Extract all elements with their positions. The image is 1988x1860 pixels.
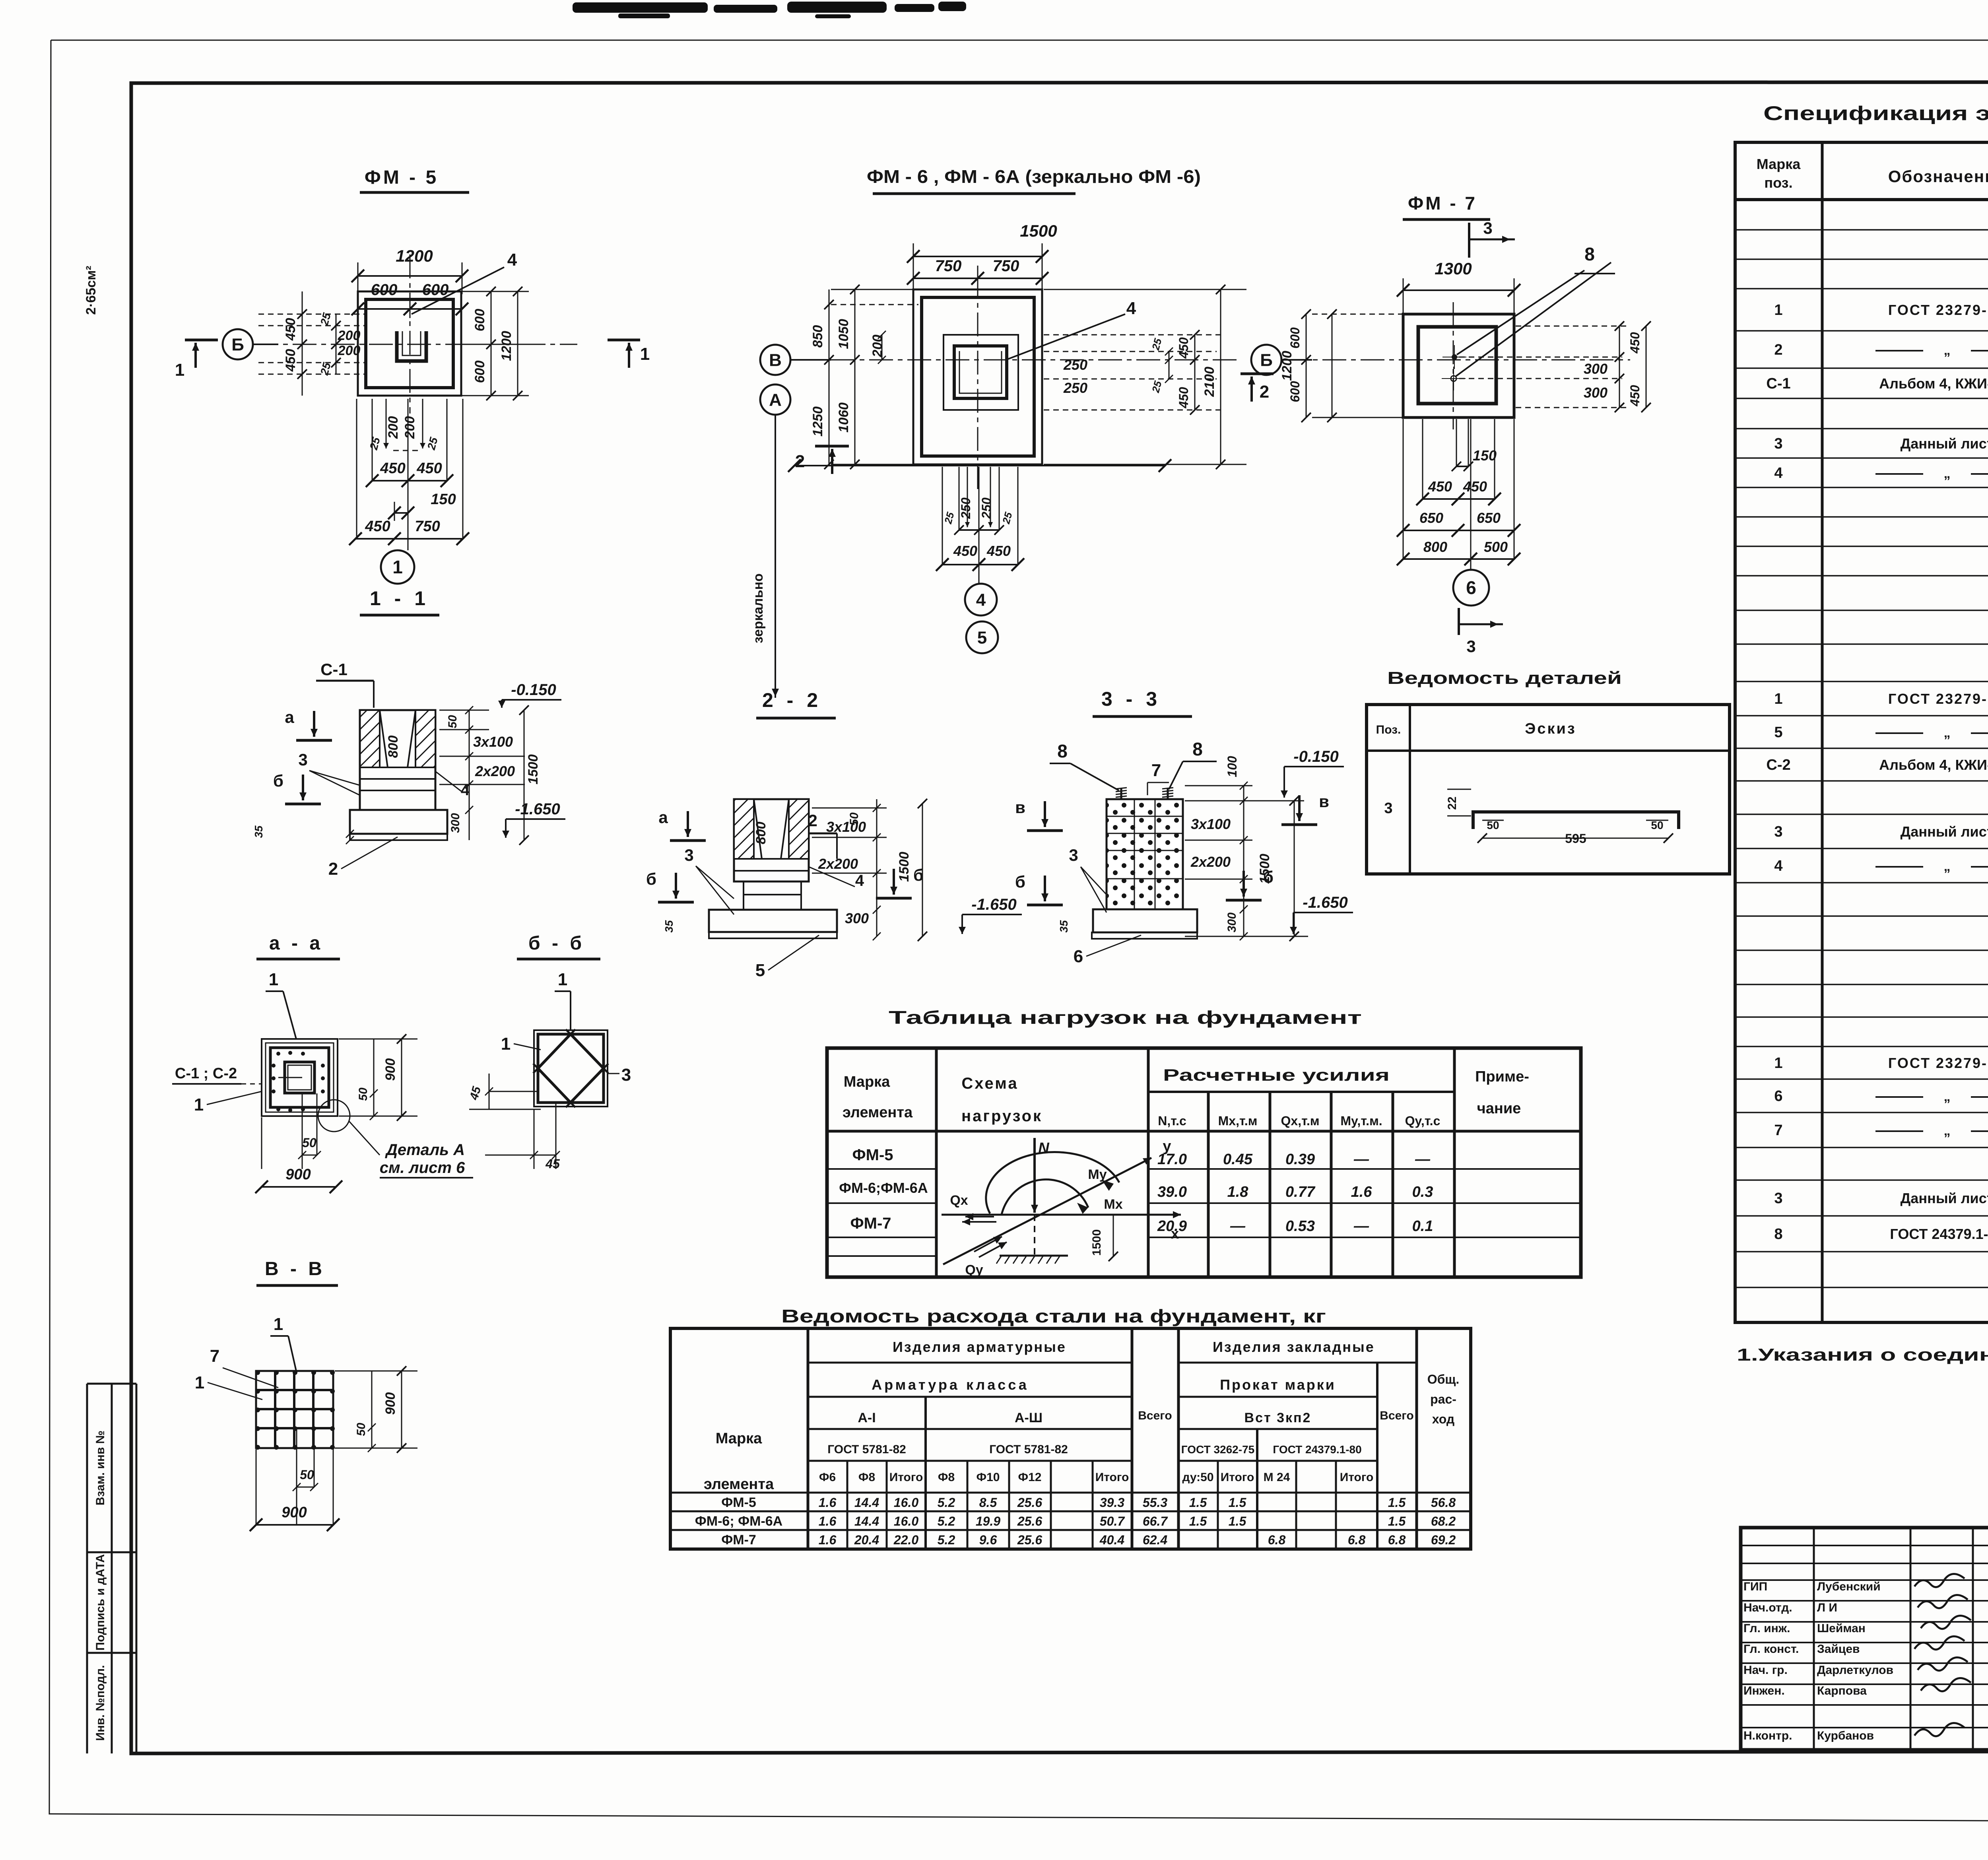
svg-text:Альбом 4, КЖИ-С-2: Альбом 4, КЖИ-С-2 (1879, 757, 1988, 773)
svg-text:14.4: 14.4 (854, 1495, 879, 1510)
svg-text:А: А (769, 390, 782, 410)
svg-text:600: 600 (472, 309, 487, 332)
svg-text:450: 450 (283, 318, 298, 341)
svg-text:50: 50 (357, 1087, 370, 1101)
svg-text:6.8: 6.8 (1348, 1533, 1366, 1547)
svg-text:Альбом 4, КЖИ-С-1: Альбом 4, КЖИ-С-1 (1879, 375, 1988, 392)
svg-text:2х200: 2х200 (818, 856, 858, 872)
svg-text:1.6: 1.6 (1351, 1184, 1373, 1200)
svg-text:3: 3 (1774, 1190, 1782, 1207)
svg-text:5: 5 (1774, 724, 1782, 741)
svg-text:800: 800 (386, 736, 401, 758)
svg-text:5.2: 5.2 (938, 1514, 955, 1528)
svg-text:ГОСТ 5781-82: ГОСТ 5781-82 (989, 1443, 1068, 1456)
svg-text:450: 450 (953, 543, 977, 559)
svg-text:в: в (1319, 792, 1329, 811)
svg-text:ГОСТ 23279-85: ГОСТ 23279-85 (1888, 691, 1988, 707)
svg-text:450: 450 (1176, 387, 1191, 409)
svg-text:22.0: 22.0 (893, 1533, 918, 1547)
svg-text:50: 50 (1651, 819, 1663, 831)
svg-text:1.6: 1.6 (819, 1514, 837, 1528)
svg-text:ГОСТ 5781-82: ГОСТ 5781-82 (827, 1443, 906, 1456)
svg-text:нагрузок: нагрузок (961, 1107, 1043, 1125)
svg-text:50: 50 (300, 1468, 314, 1482)
svg-text:250: 250 (1063, 380, 1087, 396)
svg-text:900: 900 (383, 1058, 398, 1081)
svg-text:Курбанов: Курбанов (1817, 1729, 1874, 1742)
svg-text:„: „ (1944, 343, 1951, 358)
svg-text:17.0: 17.0 (1157, 1151, 1187, 1168)
svg-text:100: 100 (1225, 756, 1239, 777)
svg-text:450: 450 (365, 518, 390, 535)
svg-text:750: 750 (993, 257, 1019, 275)
svg-text:Му: Му (1088, 1167, 1107, 1182)
svg-text:450: 450 (1463, 478, 1487, 495)
svg-text:3х100: 3х100 (1191, 816, 1231, 832)
svg-text:1.5: 1.5 (1229, 1495, 1247, 1510)
svg-text:8: 8 (1057, 741, 1068, 761)
svg-text:Итого: Итого (1095, 1471, 1129, 1484)
svg-text:Деталь А: Деталь А (385, 1141, 465, 1159)
svg-text:Всего: Всего (1138, 1409, 1172, 1422)
svg-text:ФМ - 7: ФМ - 7 (1408, 193, 1477, 214)
svg-text:ГОСТ 24379.1-80: ГОСТ 24379.1-80 (1273, 1443, 1361, 1456)
svg-text:39.0: 39.0 (1157, 1184, 1187, 1200)
svg-text:1050: 1050 (836, 319, 851, 349)
svg-text:—: — (1353, 1218, 1369, 1235)
svg-text:35: 35 (1058, 920, 1070, 933)
svg-text:ФМ-5: ФМ-5 (852, 1146, 893, 1164)
svg-text:8: 8 (1192, 739, 1203, 759)
svg-text:Дарлеткулов: Дарлеткулов (1817, 1664, 1893, 1677)
svg-text:Арматура класса: Арматура класса (872, 1377, 1029, 1393)
svg-text:50: 50 (848, 812, 861, 826)
svg-text:Схема: Схема (961, 1075, 1018, 1092)
svg-text:чание: чание (1477, 1100, 1521, 1117)
svg-text:А-I: А-I (858, 1410, 876, 1425)
svg-text:элемента: элемента (843, 1104, 913, 1121)
svg-text:Н.контр.: Н.контр. (1743, 1729, 1792, 1742)
svg-text:16.0: 16.0 (894, 1514, 918, 1528)
svg-text:2 - 2: 2 - 2 (762, 689, 822, 711)
svg-text:1: 1 (194, 1095, 204, 1114)
svg-text:55.3: 55.3 (1143, 1495, 1167, 1510)
svg-text:Обозначение: Обозначение (1888, 167, 1988, 186)
svg-text:1: 1 (195, 1373, 204, 1392)
svg-text:В: В (769, 350, 782, 370)
svg-text:300: 300 (1225, 913, 1239, 932)
svg-text:Итого: Итого (889, 1471, 923, 1484)
svg-text:450: 450 (380, 460, 405, 477)
svg-text:3: 3 (1466, 637, 1475, 656)
svg-text:40.4: 40.4 (1099, 1533, 1124, 1547)
svg-text:ГОСТ 23279-85: ГОСТ 23279-85 (1888, 1055, 1988, 1071)
svg-text:Гл. конст.: Гл. конст. (1743, 1643, 1799, 1656)
svg-text:-1.650: -1.650 (971, 896, 1016, 913)
svg-text:200: 200 (338, 328, 361, 343)
svg-text:Б: Б (1260, 350, 1273, 370)
svg-text:в: в (1015, 798, 1025, 817)
svg-text:а: а (658, 808, 668, 827)
svg-text:4: 4 (1126, 299, 1136, 318)
svg-text:Нач. гр.: Нач. гр. (1743, 1664, 1788, 1677)
svg-text:Поз.: Поз. (1376, 723, 1401, 736)
svg-text:Мх,т.м: Мх,т.м (1218, 1114, 1258, 1128)
svg-text:ФМ - 5: ФМ - 5 (365, 167, 439, 188)
svg-text:7: 7 (1774, 1122, 1782, 1139)
svg-text:Вст 3кп2: Вст 3кп2 (1244, 1410, 1312, 1425)
svg-text:650: 650 (1419, 510, 1443, 526)
svg-text:1: 1 (1774, 1055, 1782, 1072)
svg-text:14.4: 14.4 (854, 1514, 879, 1528)
svg-text:6: 6 (1466, 577, 1476, 598)
svg-text:1300: 1300 (1435, 259, 1472, 278)
svg-text:9.6: 9.6 (979, 1533, 997, 1547)
svg-text:1.5: 1.5 (1388, 1495, 1406, 1510)
svg-text:250: 250 (979, 497, 994, 519)
svg-text:1.8: 1.8 (1227, 1184, 1249, 1200)
svg-text:200: 200 (402, 416, 417, 439)
svg-text:450: 450 (1428, 478, 1452, 495)
svg-text:62.4: 62.4 (1143, 1533, 1167, 1547)
svg-text:Л И: Л И (1817, 1601, 1837, 1614)
title block (1741, 1528, 1988, 1750)
svg-text:Расчетные усилия: Расчетные усилия (1163, 1066, 1390, 1084)
section 3-3 (1120, 788, 1122, 802)
svg-text:Qу: Qу (965, 1262, 983, 1278)
svg-text:у: у (1163, 1138, 1171, 1155)
svg-text:50: 50 (355, 1423, 368, 1436)
svg-text:450: 450 (1628, 332, 1642, 354)
svg-text:1.Указания о соединении армату: 1.Указания о соединении арматурных издел… (1737, 1345, 1988, 1365)
svg-text:Таблица нагрузок на фундамент: Таблица нагрузок на фундамент (889, 1007, 1362, 1028)
svg-text:19.9: 19.9 (976, 1514, 1000, 1528)
svg-text:600: 600 (1288, 327, 1302, 349)
svg-text:7: 7 (210, 1346, 219, 1366)
svg-text:6.8: 6.8 (1388, 1533, 1406, 1547)
svg-text:Ф10: Ф10 (977, 1471, 1000, 1484)
svg-text:Итого: Итого (1221, 1471, 1254, 1484)
svg-text:3: 3 (1774, 823, 1782, 840)
svg-text:600: 600 (472, 361, 487, 383)
svg-text:450: 450 (986, 543, 1011, 559)
svg-text:2·65см²: 2·65см² (83, 266, 99, 315)
svg-text:М 24: М 24 (1264, 1471, 1290, 1484)
svg-text:Нач.отд.: Нач.отд. (1743, 1601, 1792, 1614)
svg-text:150: 150 (1473, 447, 1497, 464)
svg-text:1500: 1500 (526, 754, 541, 784)
svg-text:Гл. инж.: Гл. инж. (1743, 1622, 1790, 1635)
svg-text:3: 3 (1483, 219, 1492, 237)
svg-text:1: 1 (640, 344, 650, 364)
svg-text:300: 300 (1584, 361, 1607, 377)
svg-text:Qх,т.м: Qх,т.м (1281, 1114, 1320, 1128)
svg-text:3: 3 (298, 750, 307, 769)
svg-text:ФМ-6; ФМ-6А: ФМ-6; ФМ-6А (695, 1514, 782, 1529)
svg-text:Взам. инв №: Взам. инв № (94, 1431, 107, 1506)
svg-text:1.5: 1.5 (1229, 1514, 1247, 1528)
svg-text:3 - 3: 3 - 3 (1101, 688, 1161, 710)
svg-text:7: 7 (1151, 761, 1161, 780)
svg-text:Ф6: Ф6 (819, 1471, 836, 1484)
svg-text:200: 200 (386, 416, 401, 439)
svg-text:900: 900 (282, 1504, 307, 1521)
svg-text:1060: 1060 (836, 402, 851, 433)
svg-text:50: 50 (446, 715, 459, 728)
svg-text:2: 2 (1260, 382, 1269, 402)
svg-text:ГОСТ 24379.1-80: ГОСТ 24379.1-80 (1890, 1226, 1988, 1242)
svg-text:Зайцев: Зайцев (1817, 1643, 1860, 1656)
svg-text:а: а (285, 708, 294, 726)
svg-text:1200: 1200 (1279, 351, 1295, 381)
svg-text:Ф8: Ф8 (938, 1471, 955, 1484)
svg-text:800: 800 (1423, 539, 1447, 555)
svg-text:6.8: 6.8 (1268, 1533, 1286, 1547)
load scheme (1033, 1138, 1036, 1213)
svg-text:6: 6 (1074, 947, 1083, 966)
svg-text:ФМ - 6 , ФМ - 6А (зеркально: ФМ - 6 , ФМ - 6А (зеркально ФМ -6) (867, 166, 1201, 187)
svg-text:ду:50: ду:50 (1182, 1471, 1213, 1484)
svg-text:750: 750 (415, 518, 440, 535)
svg-text:„: „ (1944, 859, 1951, 874)
svg-text:69.2: 69.2 (1431, 1533, 1456, 1547)
svg-text:рас-: рас- (1430, 1392, 1456, 1406)
svg-text:Шейман: Шейман (1817, 1622, 1866, 1635)
svg-text:1200: 1200 (499, 331, 514, 361)
svg-text:0.1: 0.1 (1412, 1218, 1433, 1235)
svg-text:С-1: С-1 (320, 660, 348, 679)
svg-text:Инв. №подл.: Инв. №подл. (94, 1665, 107, 1741)
svg-text:Изделия арматурные: Изделия арматурные (893, 1339, 1066, 1355)
svg-text:а - а: а - а (269, 933, 323, 954)
svg-text:56.8: 56.8 (1431, 1495, 1456, 1510)
svg-text:200: 200 (338, 343, 361, 358)
svg-text:б: б (273, 771, 283, 790)
svg-text:600: 600 (371, 281, 398, 299)
svg-text:Итого: Итого (1340, 1471, 1374, 1484)
svg-text:3: 3 (621, 1065, 631, 1085)
svg-text:2: 2 (1774, 342, 1782, 358)
svg-text:-0.150: -0.150 (1293, 748, 1338, 765)
svg-text:Марка: Марка (1757, 156, 1801, 172)
svg-text:N,т.с: N,т.с (1158, 1114, 1186, 1128)
svg-text:„: „ (1944, 725, 1951, 740)
svg-text:20.4: 20.4 (854, 1533, 879, 1547)
svg-text:5: 5 (977, 628, 987, 647)
svg-text:600: 600 (1288, 381, 1302, 402)
svg-text:б: б (1015, 872, 1025, 891)
svg-text:ГОСТ 3262-75: ГОСТ 3262-75 (1181, 1443, 1254, 1456)
svg-text:800: 800 (753, 822, 769, 845)
svg-text:-1.650: -1.650 (515, 800, 560, 818)
svg-text:1: 1 (1774, 302, 1782, 318)
svg-text:35: 35 (663, 920, 675, 933)
svg-text:ФМ-7: ФМ-7 (721, 1532, 756, 1547)
svg-text:1: 1 (1774, 691, 1782, 707)
svg-text:Марка: Марка (844, 1074, 890, 1090)
svg-text:Подпись и дАТА: Подпись и дАТА (94, 1554, 107, 1651)
svg-text:0.45: 0.45 (1223, 1151, 1253, 1168)
svg-text:„: „ (1944, 466, 1951, 481)
svg-text:3: 3 (1384, 800, 1392, 817)
svg-text:С-1 ; С-2: С-1 ; С-2 (175, 1065, 237, 1082)
svg-text:50.7: 50.7 (1100, 1514, 1125, 1528)
svg-text:4: 4 (507, 250, 517, 270)
svg-text:500: 500 (1484, 539, 1508, 555)
svg-text:8: 8 (1774, 1226, 1782, 1243)
svg-text:900: 900 (383, 1392, 398, 1415)
svg-text:1: 1 (175, 360, 184, 380)
svg-text:16.0: 16.0 (894, 1495, 918, 1510)
svg-text:ГОСТ 23279-85: ГОСТ 23279-85 (1888, 302, 1988, 318)
svg-text:850: 850 (810, 325, 825, 348)
svg-text:1500: 1500 (1020, 221, 1057, 240)
svg-text:Спецификация элементов на один: Спецификация элементов на один фундамент (1763, 102, 1988, 124)
svg-text:300: 300 (845, 910, 869, 926)
svg-text:Эскиз: Эскиз (1525, 720, 1576, 737)
svg-text:—: — (1353, 1151, 1369, 1168)
svg-text:1500: 1500 (1090, 1229, 1103, 1256)
svg-text:Изделия закладные: Изделия закладные (1213, 1339, 1375, 1355)
svg-text:1: 1 (501, 1034, 511, 1054)
svg-text:45: 45 (545, 1157, 560, 1171)
svg-text:элемента: элемента (704, 1476, 774, 1493)
svg-text:Данный лист: Данный лист (1901, 1190, 1988, 1206)
svg-text:ФМ-6;ФМ-6А: ФМ-6;ФМ-6А (839, 1180, 928, 1196)
svg-text:Прокат марки: Прокат марки (1220, 1377, 1336, 1393)
svg-text:см. лист 6: см. лист 6 (380, 1159, 465, 1177)
svg-text:Карпова: Карпова (1817, 1684, 1867, 1697)
svg-text:8: 8 (1584, 244, 1595, 264)
svg-text:В - В: В - В (265, 1258, 325, 1279)
svg-text:750: 750 (935, 257, 962, 275)
svg-text:А-Ш: А-Ш (1015, 1410, 1043, 1425)
svg-text:Общ.: Общ. (1427, 1372, 1460, 1386)
svg-text:4: 4 (1774, 465, 1782, 482)
svg-text:„: „ (1944, 1123, 1951, 1138)
svg-text:2х200: 2х200 (475, 763, 515, 779)
svg-text:650: 650 (1477, 510, 1501, 526)
svg-text:25.6: 25.6 (1017, 1495, 1042, 1510)
svg-text:Данный лист: Данный лист (1901, 823, 1988, 840)
svg-text:900: 900 (285, 1166, 311, 1183)
svg-text:2: 2 (328, 859, 338, 879)
svg-text:ход: ход (1432, 1412, 1454, 1426)
svg-text:6: 6 (1774, 1088, 1782, 1105)
svg-text:4: 4 (1774, 858, 1782, 874)
svg-text:1 - 1: 1 - 1 (370, 587, 429, 610)
svg-text:4: 4 (976, 590, 986, 610)
svg-text:35: 35 (252, 825, 265, 838)
svg-text:Qу,т.с: Qу,т.с (1405, 1114, 1441, 1128)
svg-text:39.3: 39.3 (1100, 1495, 1124, 1510)
svg-text:4: 4 (855, 872, 864, 889)
svg-text:2100: 2100 (1202, 367, 1217, 397)
svg-text:50: 50 (1487, 819, 1499, 831)
svg-text:0.3: 0.3 (1412, 1184, 1433, 1200)
svg-text:Му,т.м.: Му,т.м. (1340, 1114, 1382, 1128)
svg-text:1.6: 1.6 (819, 1533, 837, 1547)
svg-text:-0.150: -0.150 (511, 681, 556, 699)
svg-text:1: 1 (558, 970, 567, 989)
svg-text:Приме-: Приме- (1475, 1068, 1529, 1085)
svg-text:Ф8: Ф8 (858, 1471, 875, 1484)
svg-text:1.5: 1.5 (1388, 1514, 1406, 1528)
svg-text:2х200: 2х200 (1190, 854, 1231, 870)
svg-text:300: 300 (1584, 384, 1607, 401)
svg-text:1.5: 1.5 (1189, 1514, 1208, 1528)
svg-text:„: „ (1944, 1089, 1951, 1104)
svg-text:1.5: 1.5 (1189, 1495, 1208, 1510)
svg-text:5: 5 (755, 961, 765, 980)
svg-text:22: 22 (1446, 796, 1459, 810)
svg-text:ФМ-5: ФМ-5 (721, 1495, 756, 1510)
svg-text:Инжен.: Инжен. (1743, 1684, 1785, 1697)
svg-text:66.7: 66.7 (1143, 1514, 1168, 1528)
svg-text:-1.650: -1.650 (1303, 894, 1347, 911)
svg-text:3х100: 3х100 (473, 734, 513, 750)
svg-text:—: — (1415, 1151, 1431, 1168)
svg-text:С-1: С-1 (1766, 375, 1790, 392)
svg-text:0.77: 0.77 (1285, 1184, 1316, 1200)
left stamp boxes (87, 1384, 136, 1753)
svg-text:1200: 1200 (396, 247, 433, 265)
svg-text:ФМ-7: ФМ-7 (850, 1215, 891, 1232)
svg-text:5.2: 5.2 (938, 1533, 955, 1547)
svg-text:Ведомость деталей: Ведомость деталей (1387, 668, 1622, 688)
svg-text:450: 450 (416, 460, 442, 477)
svg-text:1500: 1500 (897, 852, 912, 882)
svg-text:1: 1 (274, 1314, 283, 1334)
svg-text:С-2: С-2 (1766, 757, 1790, 773)
svg-text:Мх: Мх (1104, 1197, 1122, 1212)
svg-text:450: 450 (283, 349, 298, 372)
svg-text:450: 450 (1176, 337, 1191, 359)
svg-text:Лубенский: Лубенский (1817, 1580, 1881, 1593)
svg-text:3: 3 (1774, 435, 1782, 452)
svg-text:Марка: Марка (716, 1430, 762, 1447)
svg-text:25.6: 25.6 (1017, 1533, 1042, 1547)
scan noise streaks (573, 2, 966, 18)
svg-text:1: 1 (392, 557, 403, 577)
svg-text:б: б (646, 870, 656, 888)
svg-text:25.6: 25.6 (1017, 1514, 1042, 1528)
svg-text:150: 150 (431, 491, 456, 508)
svg-text:0.53: 0.53 (1285, 1218, 1315, 1235)
svg-text:600: 600 (422, 281, 449, 299)
svg-text:Б: Б (231, 335, 244, 354)
svg-text:250: 250 (959, 497, 973, 519)
svg-text:0.39: 0.39 (1285, 1151, 1315, 1168)
svg-text:Ф12: Ф12 (1018, 1471, 1042, 1484)
svg-text:1500: 1500 (1257, 854, 1272, 884)
svg-text:200: 200 (870, 335, 885, 358)
svg-text:3: 3 (1069, 846, 1078, 864)
svg-text:Всего: Всего (1380, 1409, 1413, 1422)
svg-text:1: 1 (269, 970, 278, 989)
svg-text:зеркально: зеркально (751, 573, 766, 643)
svg-text:Данный лист: Данный лист (1901, 435, 1988, 452)
svg-text:1250: 1250 (810, 406, 825, 437)
svg-text:250: 250 (1063, 357, 1087, 373)
svg-text:—: — (1230, 1218, 1246, 1235)
svg-text:х: х (1171, 1225, 1179, 1242)
svg-text:4: 4 (461, 781, 470, 799)
svg-text:450: 450 (1628, 385, 1642, 407)
svg-text:Qх: Qх (950, 1193, 968, 1208)
svg-text:68.2: 68.2 (1431, 1514, 1456, 1528)
svg-text:поз.: поз. (1764, 175, 1792, 191)
